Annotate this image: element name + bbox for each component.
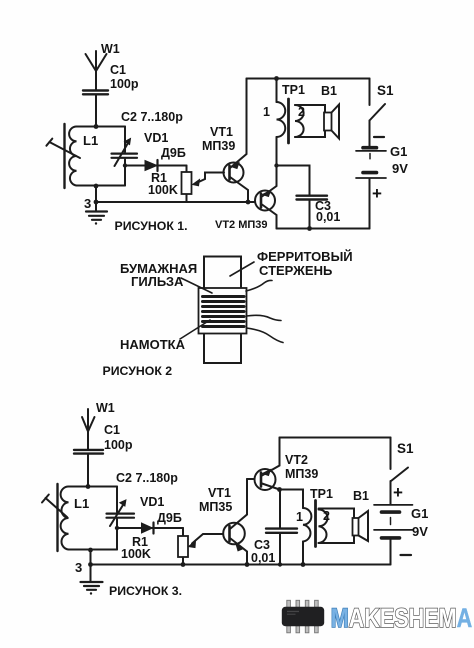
svg-text:100p: 100p	[110, 77, 139, 91]
svg-text:ТР1: ТР1	[282, 83, 305, 97]
svg-text:S1: S1	[377, 83, 394, 98]
svg-text:МП39: МП39	[202, 139, 235, 153]
svg-text:C2 7..180p: C2 7..180p	[116, 471, 178, 485]
svg-text:+: +	[393, 483, 403, 502]
svg-text:100K: 100K	[121, 547, 151, 561]
svg-text:C1: C1	[110, 63, 126, 77]
svg-text:VT1: VT1	[208, 486, 231, 500]
svg-text:G1: G1	[411, 506, 428, 521]
svg-text:1: 1	[263, 105, 270, 119]
svg-text:C1: C1	[104, 423, 120, 437]
svg-text:ГИЛЬЗА: ГИЛЬЗА	[131, 274, 184, 289]
svg-text:B1: B1	[353, 489, 369, 503]
svg-text:+: +	[372, 184, 382, 203]
svg-text:VT1: VT1	[210, 125, 233, 139]
svg-text:СТЕРЖЕНЬ: СТЕРЖЕНЬ	[259, 263, 332, 278]
svg-text:VT2 МП39: VT2 МП39	[215, 219, 268, 231]
svg-text:9V: 9V	[392, 161, 408, 176]
svg-text:РИСУНОК 2: РИСУНОК 2	[103, 364, 173, 378]
svg-text:Д9Б: Д9Б	[161, 146, 186, 160]
svg-text:9V: 9V	[412, 524, 428, 539]
svg-text:100p: 100p	[104, 438, 133, 452]
svg-text:РИСУНОК 1.: РИСУНОК 1.	[115, 219, 188, 233]
svg-text:МП39: МП39	[285, 467, 318, 481]
svg-text:L1: L1	[83, 133, 98, 148]
svg-text:S1: S1	[397, 441, 414, 456]
svg-text:РИСУНОК 3.: РИСУНОК 3.	[109, 584, 182, 598]
svg-text:2: 2	[298, 105, 305, 119]
svg-text:G1: G1	[390, 144, 407, 159]
svg-text:W1: W1	[96, 401, 115, 415]
svg-text:VD1: VD1	[140, 495, 164, 509]
svg-text:C3: C3	[254, 538, 270, 552]
svg-text:3: 3	[75, 560, 82, 575]
svg-text:Д9Б: Д9Б	[157, 511, 182, 525]
svg-text:ТР1: ТР1	[310, 487, 333, 501]
svg-text:100K: 100K	[148, 183, 178, 197]
svg-text:C2 7..180p: C2 7..180p	[121, 110, 183, 124]
svg-text:НАМОТКА: НАМОТКА	[120, 337, 186, 352]
svg-text:0,01: 0,01	[251, 551, 275, 565]
svg-text:B1: B1	[321, 84, 337, 98]
svg-text:MAKESHEMA: MAKESHEMA	[331, 604, 473, 634]
svg-text:VD1: VD1	[144, 131, 168, 145]
svg-text:3: 3	[84, 196, 91, 211]
svg-text:1: 1	[296, 510, 303, 524]
svg-text:МП35: МП35	[199, 500, 232, 514]
svg-text:ФЕРРИТОВЫЙ: ФЕРРИТОВЫЙ	[257, 249, 353, 264]
svg-text:VT2: VT2	[285, 453, 308, 467]
svg-text:2: 2	[323, 509, 330, 523]
svg-text:0,01: 0,01	[316, 210, 340, 224]
svg-text:W1: W1	[101, 42, 120, 56]
svg-text:L1: L1	[74, 496, 89, 511]
